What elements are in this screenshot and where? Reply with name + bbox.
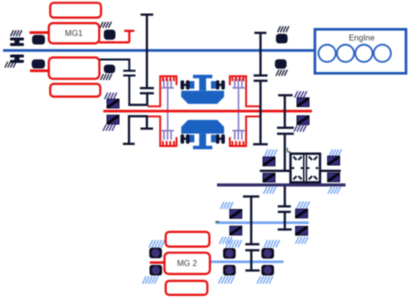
planetary lower right pin (blue square) <box>211 135 216 143</box>
hatching bearing MG1 upper-right <box>100 22 111 28</box>
MG1 housing box bottom <box>50 84 100 97</box>
planet gear upper-right (black capsules) <box>216 80 225 89</box>
bearing MG1 shaft upper-right (black) <box>104 30 116 40</box>
MG2 stator box (labelled) <box>165 253 210 274</box>
hatching differential bearing left-top <box>265 149 278 156</box>
planetary upper sun T (blue) <box>193 75 212 91</box>
bearing MG shaft right-above (indigo slash) <box>297 98 309 107</box>
bearing MG1 shaft lower-left (black) <box>32 59 45 68</box>
engine cylinder 3 <box>355 45 372 62</box>
engine cylinder 2 <box>337 45 354 62</box>
hatching MG2-shaft bearing left-top <box>226 240 242 248</box>
wire left axle <box>260 170 290 172</box>
bearing MG2 shaft left-bottom (ball) <box>223 265 236 276</box>
planetary lower sun T (blue) <box>193 134 212 150</box>
hatching differential bearing right-top <box>329 149 342 156</box>
bearing countershaft right-top (indigo slash) <box>296 209 308 218</box>
hatching MG-shaft bearing left-above <box>105 93 117 100</box>
hatching MG-shaft bearing right-below <box>294 125 306 132</box>
svg-text:MG1: MG1 <box>65 29 83 38</box>
bearing MG2 shaft right-bottom (ball) <box>261 265 274 276</box>
planetary lower carrier slab (blue) <box>181 120 224 134</box>
differential bevel ticks right cell <box>307 157 319 180</box>
bearing differential right-bottom (indigo slash) <box>328 173 340 182</box>
MG1 rotor link (red T) <box>99 31 134 43</box>
bearing MG2 upper (ball) <box>149 248 162 259</box>
wire right axle <box>321 170 341 172</box>
bearing MG1 shaft lower-right (black) <box>104 65 115 74</box>
hatching MG2-shaft bearing left-bottom <box>219 276 235 284</box>
planetary upper right pin (blue square) <box>211 81 216 89</box>
hatching MG2 bearing bottom <box>143 276 159 284</box>
MG1 mount stub upper (red) <box>30 31 49 34</box>
bearing MG shaft left-below (indigo slash) <box>107 115 119 124</box>
planet gear lower-left (black capsules) <box>181 134 190 143</box>
bearing MG2 shaft left-top (ball) <box>223 248 236 259</box>
planetary upper left pin (blue square) <box>190 81 195 89</box>
green datum tick at countershaft end <box>216 221 220 222</box>
engine cylinder 1 <box>319 45 336 62</box>
thrust mount lower-left (I-beam) <box>10 55 24 63</box>
bearing countershaft right-bottom (indigo slash) <box>296 226 308 235</box>
hatching thrust mount lower-left <box>5 62 16 68</box>
hatching MG2-shaft bearing right-bottom <box>257 276 273 284</box>
output gear G2 (gear with T-caps) <box>245 250 259 270</box>
hatching countershaft bearing right-top <box>297 201 310 208</box>
sun shaft column S1 (T-cap + stem + synchro plates) <box>128 15 154 105</box>
MG2 mount link (red) <box>150 261 165 264</box>
carrier link below MG shaft (bar + gear T-caps) <box>123 116 153 144</box>
planet gear lower-right (black capsules) <box>216 134 225 143</box>
hatching MG2 bearing top <box>149 240 165 248</box>
MG1 stator box (labelled) <box>49 23 99 43</box>
bearing differential right-top (indigo slash) <box>328 156 340 165</box>
hatching MG2-shaft bearing right-top <box>264 240 280 248</box>
bearing engine shaft lower (black) <box>275 59 287 68</box>
hatching bearing engine lower <box>276 70 287 76</box>
bearing MG1 shaft upper-left (black) <box>32 35 45 45</box>
hatching differential bearing left-bottom <box>264 187 277 194</box>
clutch drum upper-right (red staple + teeth) <box>229 76 260 106</box>
differential bevel ticks left cell <box>292 157 304 180</box>
wire MG2 shaft (light blue) <box>210 261 284 264</box>
bearing engine shaft upper (black) <box>276 34 288 44</box>
bearing MG shaft left-above (indigo slash) <box>107 99 119 108</box>
bearing differential left-bottom (indigo slash) <box>263 173 275 182</box>
clutch drum lower-right (red staple + teeth) <box>229 116 260 146</box>
hatching differential bearing right-bottom <box>328 187 341 194</box>
hatching thrust mount upper-left <box>11 30 22 36</box>
wire countershaft (light blue) <box>215 221 308 224</box>
hatching bearing MG1 lower-right <box>101 74 112 80</box>
brake link from MG1 lower box (L + synchro plates) <box>100 60 136 105</box>
green datum tick at differential <box>287 148 290 152</box>
bearing differential left-top (indigo slash) <box>263 157 275 166</box>
MG1 housing box top <box>50 3 101 18</box>
MG1 mount stub lower (red) <box>30 69 49 72</box>
hatching countershaft bearing left-bottom <box>220 237 233 244</box>
input gear column V1 (T-caps + clutch plates) <box>253 33 268 144</box>
bearing MG2 lower (ball) <box>150 265 163 276</box>
MG1 stator box lower <box>49 58 100 79</box>
hatching MG-shaft bearing left-below <box>103 124 115 131</box>
planetary lower left pin (blue square) <box>190 135 195 143</box>
clutch hub right (purple) upper comb + stem + lower comb <box>232 79 244 140</box>
engine cylinder 4 <box>374 45 391 62</box>
planet gear upper-left (black capsules) <box>181 80 190 89</box>
planetary upper carrier slab (blue) <box>181 91 224 104</box>
engine block box <box>315 29 406 73</box>
MG2 housing box top <box>166 232 210 247</box>
transfer gear column V2 lower (stem + clutch plates + T-cap) <box>278 186 292 229</box>
clutch drum lower-left (red staple + teeth) <box>148 116 178 146</box>
hatching MG-shaft bearing right-above <box>295 91 307 98</box>
thrust mount upper-left (I-beam) <box>10 38 24 47</box>
svg-text:MG 2: MG 2 <box>177 259 197 268</box>
bearing MG shaft right-below (indigo slash) <box>297 116 309 125</box>
hatching bearing engine upper <box>278 26 289 32</box>
MG2 housing box bottom <box>166 281 208 295</box>
wire MG shaft (red) <box>103 110 312 113</box>
hatching countershaft bearing right-bottom <box>296 237 309 244</box>
bearing countershaft left-top (indigo slash) <box>230 210 242 219</box>
wire main input shaft (blue) <box>3 49 314 52</box>
clutch hub left (purple) upper comb + stem + lower comb <box>162 79 174 140</box>
transfer gear column V2 upper (T-cap + clutch plates) <box>277 95 294 171</box>
svg-text:EngIne: EngIne <box>349 33 375 42</box>
wire final drive shaft (navy) <box>217 183 346 186</box>
differential frame <box>289 153 321 184</box>
counter gear G1 (long gear with T-caps) <box>243 197 259 245</box>
clutch drum upper-left (red staple + teeth) <box>148 76 178 106</box>
bearing countershaft left-bottom (indigo slash) <box>230 226 242 235</box>
differential center walls <box>304 155 307 181</box>
hatching countershaft bearing left-top <box>221 202 234 209</box>
bearing MG2 shaft right-top (ball) <box>261 248 274 259</box>
